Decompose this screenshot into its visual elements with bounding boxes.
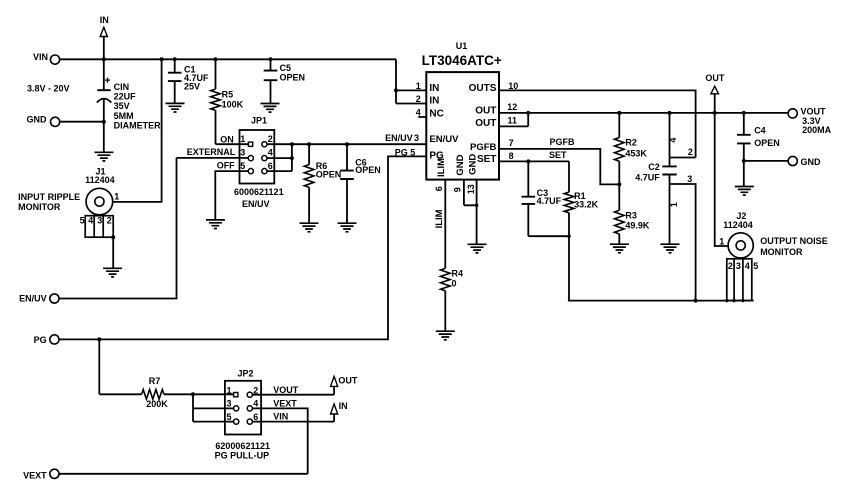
wire C2 pin2 sense xyxy=(670,157,696,159)
svg-text:IN: IN xyxy=(100,15,109,25)
junction OUT-C2 xyxy=(668,111,672,115)
svg-text:VIN: VIN xyxy=(273,412,288,422)
svg-text:GND: GND xyxy=(27,114,48,124)
svg-text:4: 4 xyxy=(253,399,258,409)
svg-text:OUTPUT NOISE: OUTPUT NOISE xyxy=(760,236,828,246)
svg-text:VEXT: VEXT xyxy=(23,471,47,481)
svg-text:NC: NC xyxy=(429,108,443,119)
wire OUT rail pins 12 11 xyxy=(499,111,788,127)
svg-text:ON: ON xyxy=(220,134,234,144)
junction VIN-R5 xyxy=(214,57,218,61)
svg-text:VIN: VIN xyxy=(33,52,48,62)
svg-text:OUT: OUT xyxy=(705,73,725,83)
svg-text:5: 5 xyxy=(226,412,231,422)
svg-text:4.7UF: 4.7UF xyxy=(537,196,562,206)
svg-text:1: 1 xyxy=(114,191,119,201)
svg-text:4.7UF: 4.7UF xyxy=(635,172,660,182)
svg-text:IN: IN xyxy=(429,96,439,107)
capacitor C2 (4-terminal) xyxy=(635,113,676,244)
svg-text:4: 4 xyxy=(745,261,750,271)
pin 1 label J2 xyxy=(719,237,724,247)
terminal VIN xyxy=(33,52,60,64)
wire PG net xyxy=(59,156,426,339)
svg-text:7: 7 xyxy=(509,138,514,148)
ground R4 xyxy=(436,331,455,340)
svg-text:49.9K: 49.9K xyxy=(625,221,650,231)
svg-text:OPEN: OPEN xyxy=(316,170,342,180)
svg-text:DIAMETER: DIAMETER xyxy=(114,121,162,131)
svg-text:12: 12 xyxy=(507,102,517,112)
capacitor C6 xyxy=(340,144,381,223)
junction PGFB node xyxy=(617,182,621,186)
label OFF xyxy=(217,160,235,170)
svg-text:4: 4 xyxy=(268,148,273,158)
wire GND kelvin rail xyxy=(568,299,754,303)
svg-text:PG: PG xyxy=(34,335,47,345)
node OUT (output arrow) xyxy=(705,73,725,113)
svg-text:OUT: OUT xyxy=(475,106,496,117)
svg-text:3: 3 xyxy=(97,216,102,226)
svg-text:5: 5 xyxy=(753,261,758,271)
svg-text:VOUT: VOUT xyxy=(801,107,827,117)
svg-text:OUT: OUT xyxy=(338,375,358,385)
svg-text:R4: R4 xyxy=(452,269,464,279)
wire PGFB net xyxy=(499,149,619,185)
ground C2 xyxy=(661,244,680,253)
label VIN jumper xyxy=(273,412,288,422)
label JP1 part number xyxy=(234,187,284,197)
svg-text:R7: R7 xyxy=(149,376,161,386)
svg-text:3: 3 xyxy=(226,399,231,409)
svg-text:1: 1 xyxy=(669,202,679,207)
resistor R7 xyxy=(142,376,234,409)
label VEXT jumper xyxy=(273,398,297,408)
junction VIN-C5 xyxy=(269,57,273,61)
ground R3 xyxy=(610,244,629,253)
label net PG pin 5 xyxy=(395,147,416,157)
wire JP2 pin2 VOUT xyxy=(252,394,334,396)
svg-text:OPEN: OPEN xyxy=(754,138,780,148)
svg-text:11: 11 xyxy=(508,116,518,126)
wire GND to CIN xyxy=(60,120,106,124)
wire J1 shield to ground xyxy=(111,235,115,268)
svg-text:OPEN: OPEN xyxy=(280,72,306,82)
svg-text:JP1: JP1 xyxy=(251,116,267,126)
svg-text:VEXT: VEXT xyxy=(273,398,297,408)
ground R6 xyxy=(300,223,319,232)
svg-text:OUTS: OUTS xyxy=(469,83,497,94)
junction VIN-CIN xyxy=(102,57,106,61)
C2 pin 1 label xyxy=(669,202,679,207)
label input voltage range xyxy=(27,83,70,93)
svg-text:PG: PG xyxy=(395,147,408,157)
C2 pin 4 label xyxy=(668,138,678,143)
svg-text:U1: U1 xyxy=(456,41,468,51)
svg-text:3: 3 xyxy=(240,148,245,158)
junction R7-JP2 tie xyxy=(191,392,195,396)
capacitor C5 xyxy=(264,59,305,103)
resistor R4 xyxy=(441,268,464,331)
junction OUT-C4 xyxy=(742,111,746,115)
wire net EN/UV to U1 pin3 xyxy=(267,143,426,145)
resistor R1 xyxy=(564,161,598,236)
J1 shield pins 5 4 3 2 xyxy=(80,216,114,238)
pin 1 label J1 xyxy=(114,191,119,201)
ground U1 GND xyxy=(468,244,487,253)
wire ILIM from U1 pin6 xyxy=(444,180,446,269)
svg-text:5MM: 5MM xyxy=(114,111,134,121)
svg-text:ILIM: ILIM xyxy=(434,209,445,228)
svg-text:200K: 200K xyxy=(146,399,168,409)
label VOUT jumper xyxy=(273,385,299,395)
capacitor C4 xyxy=(737,113,780,187)
wire JP2 pins 1-3-5 tie xyxy=(193,394,234,421)
svg-text:35V: 35V xyxy=(114,101,130,111)
wire EXTERNAL to JP1 pin3 xyxy=(177,157,249,159)
svg-text:MONITOR: MONITOR xyxy=(760,247,803,257)
wire JP2 pin4 VEXT xyxy=(252,408,307,473)
svg-text:8: 8 xyxy=(509,151,514,161)
wire R5 to JP1 pin1 (ON) xyxy=(216,143,249,145)
svg-text:2: 2 xyxy=(107,216,112,226)
svg-text:OPEN: OPEN xyxy=(355,165,381,175)
svg-text:PG PULL-UP: PG PULL-UP xyxy=(215,451,270,461)
svg-text:2: 2 xyxy=(688,147,693,157)
svg-text:1: 1 xyxy=(240,134,245,144)
connector J1 (BNC) xyxy=(85,166,115,215)
junction VIN-C1 xyxy=(173,57,177,61)
J2 shield pins 2 3 4 5 xyxy=(725,259,758,303)
junction EN/UV-R6 xyxy=(307,142,311,146)
label INPUT RIPPLE MONITOR xyxy=(18,192,80,212)
svg-text:0: 0 xyxy=(452,278,457,288)
svg-text:4: 4 xyxy=(416,108,421,118)
svg-text:IN: IN xyxy=(429,83,439,94)
U1 left pin labels xyxy=(429,83,459,162)
svg-text:453K: 453K xyxy=(625,149,647,159)
label JP1 function EN/UV xyxy=(242,199,270,209)
svg-text:62000621121: 62000621121 xyxy=(215,441,270,451)
ground C1 xyxy=(166,103,185,112)
label ON xyxy=(220,134,234,144)
svg-text:EN/UV: EN/UV xyxy=(385,133,413,143)
svg-text:200MA: 200MA xyxy=(802,125,832,135)
wire EN/UV terminal to JP1 pin3 xyxy=(59,158,177,299)
wire GND tap to terminal xyxy=(742,159,788,163)
ground C5 xyxy=(261,104,280,113)
terminal VOUT xyxy=(788,107,832,135)
svg-text:2: 2 xyxy=(416,94,421,104)
label JP2 function PG PULL-UP xyxy=(215,451,270,461)
svg-text:VOUT: VOUT xyxy=(273,385,299,395)
resistor R6 xyxy=(304,144,341,223)
junction VIN-J1 drop xyxy=(160,57,164,61)
svg-text:2: 2 xyxy=(728,261,733,271)
svg-text:2: 2 xyxy=(268,134,273,144)
resistor R2 xyxy=(615,113,648,210)
svg-text:GND: GND xyxy=(455,154,466,175)
wire JP2 pin6 VIN xyxy=(252,421,334,423)
U1 pin numbers left xyxy=(416,81,421,117)
terminal EN/UV xyxy=(19,294,59,304)
svg-text:INPUT RIPPLE: INPUT RIPPLE xyxy=(18,192,80,202)
svg-text:IN: IN xyxy=(339,401,348,411)
svg-text:22UF: 22UF xyxy=(114,92,137,102)
svg-text:4: 4 xyxy=(668,138,678,143)
svg-text:1: 1 xyxy=(226,386,231,396)
ground C4 xyxy=(735,187,754,196)
connector J2 (BNC) xyxy=(723,211,753,258)
svg-text:R3: R3 xyxy=(625,210,637,220)
node OUT (jumper arrow) xyxy=(331,375,358,394)
resistor R5 xyxy=(211,59,244,144)
U1 pin numbers bottom xyxy=(434,184,476,194)
svg-text:112404: 112404 xyxy=(85,175,115,185)
svg-text:OUT: OUT xyxy=(475,118,496,129)
svg-text:PGFB: PGFB xyxy=(550,137,576,147)
capacitor C3 xyxy=(522,161,562,236)
svg-text:5: 5 xyxy=(410,147,415,157)
terminal PG xyxy=(34,335,59,345)
wire U1 pin4 NC stub xyxy=(418,116,426,118)
svg-text:EN/UV: EN/UV xyxy=(429,134,459,145)
ground J1 xyxy=(103,268,122,277)
svg-text:3: 3 xyxy=(414,133,419,143)
svg-text:9: 9 xyxy=(452,187,462,192)
svg-text:PGFB: PGFB xyxy=(470,142,497,153)
wire JP1 pins 2-4-6 tie xyxy=(267,142,294,171)
ground JP1 OFF xyxy=(206,220,225,229)
wire C2 pin3 sense xyxy=(670,184,696,301)
svg-text:OFF: OFF xyxy=(217,160,235,170)
svg-text:SET: SET xyxy=(477,154,496,165)
wire VIN to U1 pins 1 2 xyxy=(394,59,426,103)
U1 bottom pin labels xyxy=(436,154,479,177)
svg-text:3: 3 xyxy=(736,261,741,271)
wire C3 R1 bottom to GND rail xyxy=(528,234,571,300)
label OUTPUT NOISE MONITOR xyxy=(760,236,828,257)
terminal VEXT xyxy=(23,469,59,480)
U1 pin numbers right xyxy=(507,81,518,161)
capacitor C1 xyxy=(168,59,209,103)
svg-text:R5: R5 xyxy=(222,90,234,100)
svg-text:13: 13 xyxy=(466,184,476,194)
label net EN/UV pin 3 xyxy=(385,133,419,143)
svg-text:LT3046ATC+: LT3046ATC+ xyxy=(422,53,502,68)
C2 pin 3 label xyxy=(687,174,692,184)
svg-text:112404: 112404 xyxy=(723,220,753,230)
terminal GND (output) xyxy=(788,156,821,167)
svg-text:4: 4 xyxy=(88,216,93,226)
wire VEXT terminal xyxy=(59,473,308,475)
junction EN/UV-C6 xyxy=(345,142,349,146)
op-amp U1 outline xyxy=(422,41,502,180)
label EXTERNAL xyxy=(187,147,236,157)
wire J2 pin1 to OUT xyxy=(715,113,729,246)
wire U1 GND pins 9 13 xyxy=(464,180,479,245)
svg-text:GND: GND xyxy=(468,154,479,175)
label net PGFB xyxy=(550,137,576,147)
wire SET net xyxy=(499,159,569,163)
svg-text:6000621121: 6000621121 xyxy=(234,187,284,197)
svg-text:EXTERNAL: EXTERNAL xyxy=(187,147,236,157)
ground CIN xyxy=(94,152,113,161)
svg-text:5: 5 xyxy=(240,161,245,171)
wire VIN rail xyxy=(60,58,396,60)
svg-text:6: 6 xyxy=(268,161,273,171)
svg-text:C4: C4 xyxy=(754,126,766,136)
svg-text:100K: 100K xyxy=(222,100,244,110)
label JP2 part number xyxy=(215,441,270,451)
svg-text:1: 1 xyxy=(719,237,724,247)
svg-text:3: 3 xyxy=(687,174,692,184)
svg-text:GND: GND xyxy=(801,157,822,167)
svg-text:C2: C2 xyxy=(648,162,660,172)
svg-text:JP2: JP2 xyxy=(237,368,253,378)
svg-text:6: 6 xyxy=(253,412,258,422)
jumper JP1 xyxy=(240,116,275,184)
svg-text:6: 6 xyxy=(434,186,444,191)
wire OUTS U1 pin10 xyxy=(499,90,696,157)
resistor R3 xyxy=(615,210,650,244)
ground C6 xyxy=(338,223,357,232)
jumper JP2 xyxy=(225,368,261,434)
svg-text:SET: SET xyxy=(549,150,567,160)
capacitor CIN (polarized) xyxy=(97,59,161,153)
terminal GND (input) xyxy=(27,114,60,126)
svg-text:CIN: CIN xyxy=(114,82,130,92)
svg-text:33.2K: 33.2K xyxy=(574,200,599,210)
svg-text:25V: 25V xyxy=(184,82,200,92)
svg-text:R2: R2 xyxy=(625,138,637,148)
label net SET xyxy=(549,150,567,160)
svg-text:ILIM: ILIM xyxy=(436,158,447,177)
junction OUT-R2 xyxy=(617,111,621,115)
svg-text:EN/UV: EN/UV xyxy=(19,294,47,304)
node IN (jumper arrow) xyxy=(331,401,348,421)
U1 right pin labels xyxy=(469,83,497,165)
node IN (input arrow) xyxy=(100,15,109,60)
wire OFF JP1 pin5 to ground xyxy=(215,171,248,220)
svg-text:EN/UV: EN/UV xyxy=(242,199,270,209)
svg-text:MONITOR: MONITOR xyxy=(18,202,61,212)
svg-text:5: 5 xyxy=(80,216,85,226)
wire J1 pin1 to VIN xyxy=(113,59,162,202)
svg-text:3.8V - 20V: 3.8V - 20V xyxy=(27,83,70,93)
label net ILIM xyxy=(434,209,445,228)
junction OUT-arrow xyxy=(713,111,717,115)
wire PG to R7 xyxy=(99,339,141,394)
C2 pin 2 label xyxy=(688,147,693,157)
junction PG-R7 drop xyxy=(97,337,101,341)
